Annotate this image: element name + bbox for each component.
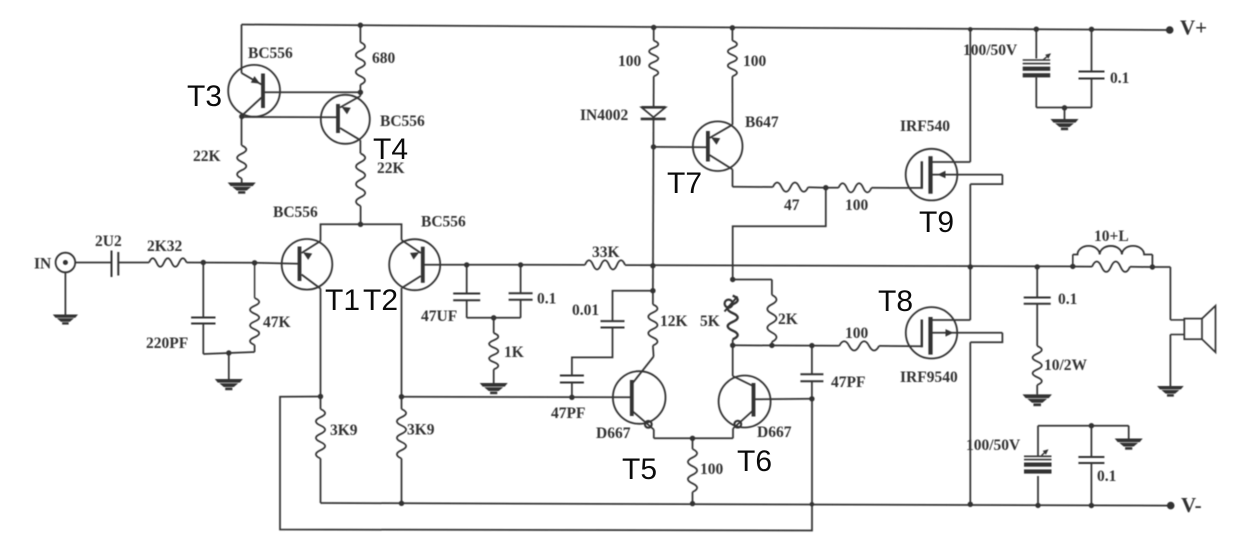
label BC556 T4 — [380, 113, 425, 130]
svg-text:22K: 22K — [193, 148, 221, 165]
wire 10/2W to ground — [1036, 385, 1038, 394]
capacitor 0.1 bottom right — [1078, 426, 1104, 506]
node 0.1 junction — [518, 262, 523, 267]
node 47PF right junction — [809, 343, 814, 348]
transistor T2 base bar — [421, 247, 425, 283]
node output junction — [968, 264, 973, 269]
transistor T4 collector — [340, 128, 360, 140]
wire diode to VAS node — [652, 119, 655, 291]
wire T7 base line — [654, 146, 708, 148]
resistor 12K — [648, 291, 657, 346]
resistor 100 T8 gate — [839, 341, 879, 350]
label T3 — [187, 80, 222, 113]
svg-text:0.1: 0.1 — [1097, 468, 1116, 485]
svg-text:0.1: 0.1 — [537, 291, 556, 308]
label T8 — [878, 285, 913, 318]
label IN — [34, 256, 51, 273]
resistor 1K — [489, 318, 498, 370]
transistor Q T2 BC556 circle — [389, 239, 440, 290]
transistor Q T8 IRF9540 circle — [906, 307, 957, 358]
transistor Q T6 D667 circle — [719, 376, 771, 428]
wire rail to elcap — [1035, 29, 1037, 58]
svg-text:0.01: 0.01 — [572, 302, 599, 319]
wire T2 collector down — [401, 288, 403, 409]
transistor T5 collector — [632, 357, 653, 384]
label B647 — [745, 114, 779, 131]
svg-text:100: 100 — [700, 461, 724, 478]
transistor T6 collector — [733, 376, 753, 386]
label 3K9 right — [407, 422, 435, 439]
label D667 T6 — [757, 424, 792, 441]
node 100L rail junction — [651, 25, 656, 30]
label 5K — [700, 313, 720, 330]
node T1 collector junction — [318, 394, 323, 399]
wire 680 to node — [359, 85, 361, 96]
resistor 22K right — [356, 153, 365, 206]
transistor T1 base bar — [298, 247, 302, 282]
speaker LS1 — [1170, 306, 1215, 353]
wire 2K to bias bottom — [771, 342, 773, 346]
svg-text:47: 47 — [784, 197, 800, 214]
node ground junction — [226, 350, 231, 355]
transistor T6 emitter — [733, 411, 753, 429]
wire rail to 100R — [731, 28, 733, 41]
transistor T3 emitter — [242, 73, 262, 85]
node 1K junction — [491, 315, 496, 320]
resistor 3K9 left — [316, 409, 325, 459]
svg-text:T5: T5 — [622, 453, 657, 486]
transistor Q T9 IRF540 circle — [906, 149, 958, 201]
svg-text:100: 100 — [618, 53, 642, 70]
node T8 V- junction — [968, 502, 973, 507]
svg-text:BC556: BC556 — [421, 214, 466, 231]
transistor Q T7 B647 circle — [693, 121, 743, 171]
label T9 — [919, 206, 954, 239]
svg-text:IRF9540: IRF9540 — [900, 369, 958, 386]
label BC556 T1 — [273, 204, 318, 221]
wire 100R to T7 emitter — [731, 76, 733, 124]
label T4 — [373, 133, 408, 166]
transistor Q T1 BC556 circle — [282, 239, 333, 290]
wire 5K to bias bottom — [732, 339, 734, 345]
wire feedback left — [280, 397, 812, 531]
svg-text:IN: IN — [34, 256, 51, 273]
resistor 22K left — [237, 145, 246, 178]
label 100 T8 gate — [845, 325, 869, 342]
wire psu gnd link bottom — [1038, 425, 1129, 427]
label V- — [1181, 493, 1202, 517]
label 0.01 — [572, 302, 599, 319]
transistor T1 collector — [302, 275, 321, 289]
resistor 33K — [585, 260, 625, 269]
wire node B to T1 base — [255, 263, 300, 264]
node 10+L left junction — [1070, 264, 1075, 269]
wire V- to elcap bottom — [1037, 476, 1039, 505]
svg-text:2K: 2K — [778, 311, 798, 328]
wire psu gnd stub bottom — [1128, 426, 1130, 439]
transistor T8 gate bar — [921, 320, 923, 348]
transistor T7 base bar — [706, 131, 710, 162]
resistor 47 — [773, 183, 808, 192]
svg-text:47UF: 47UF — [421, 308, 457, 325]
wire 47 to node — [808, 186, 826, 188]
label IRF540 — [900, 118, 950, 135]
label IN4002 — [580, 107, 628, 124]
resistor 2K32 — [149, 258, 187, 267]
node feedback V- crossing — [810, 502, 815, 507]
wire 3K9 right to V- — [401, 459, 403, 504]
transistor T6 base bar — [752, 383, 756, 417]
capacitor 47PF left — [560, 376, 584, 383]
label IRF9540 — [900, 369, 958, 386]
trimmer 5K — [725, 296, 738, 340]
label 100 right top — [743, 53, 767, 70]
transistor Q T3 BC556 circle — [228, 65, 280, 117]
label 22K right — [377, 160, 405, 177]
svg-text:2K32: 2K32 — [147, 238, 183, 255]
transistor T8 drain lead — [931, 319, 971, 321]
svg-text:T1: T1 — [325, 284, 360, 317]
wire 3K9 left to V- — [320, 459, 322, 504]
wire T6 collector up — [732, 345, 734, 376]
node 47UF junction — [464, 262, 469, 267]
label 47UF — [421, 308, 457, 325]
wire T8 drain to output — [969, 267, 971, 320]
svg-text:BC556: BC556 — [248, 45, 293, 62]
resistor 47K — [250, 263, 259, 352]
svg-text:47K: 47K — [263, 314, 291, 331]
node 680 top junction — [358, 23, 363, 28]
capacitor 0.01 — [601, 321, 625, 327]
transistor Q T4 BC556 circle — [321, 95, 370, 144]
resistor 2K — [767, 295, 776, 342]
wire T4 collector to 22K — [359, 140, 361, 153]
wire tail split — [321, 224, 402, 241]
capacitor 100/50V bottom — [1024, 449, 1052, 473]
ground 1K — [480, 383, 508, 394]
label 33K — [592, 244, 620, 261]
ground zobel — [1023, 394, 1052, 406]
svg-text:100/50V: 100/50V — [966, 437, 1021, 454]
label 100/50V top — [963, 42, 1018, 59]
connector J1 input — [56, 253, 76, 273]
node 100E V- junction — [690, 501, 695, 506]
wire speaker to ground — [1169, 335, 1171, 387]
label 0.1 top right — [1110, 70, 1129, 87]
wire ground stub — [228, 353, 230, 379]
node A junction 220PF — [201, 260, 206, 265]
wire T9 source to output — [969, 184, 971, 267]
svg-text:IN4002: IN4002 — [580, 107, 628, 124]
transistor T4 emitter — [340, 96, 360, 114]
resistor 10/2W — [1033, 346, 1042, 385]
resistor 680 — [356, 42, 365, 84]
wire cap link — [467, 317, 521, 319]
wire T9 drain to rail — [969, 29, 971, 162]
node 3K9 V- junction — [399, 501, 404, 506]
transistor T5 base bar — [630, 380, 634, 416]
label 47K — [263, 314, 291, 331]
wire 22K to tail node — [360, 206, 362, 224]
svg-text:47PF: 47PF — [551, 405, 585, 422]
svg-text:10+L: 10+L — [1094, 228, 1129, 245]
node 0.1 bottom junction — [1089, 503, 1094, 508]
node T9 rail junction — [968, 27, 973, 32]
label 10+L — [1094, 228, 1129, 245]
node T4 emitter junction — [358, 90, 363, 95]
label BC556 T3 — [248, 45, 293, 62]
wire rail to 100L — [653, 28, 655, 41]
label 100 T9 gate — [845, 197, 869, 214]
label 2K — [778, 311, 798, 328]
wire T5 base line — [402, 396, 632, 399]
capacitor 0.1 top right — [1079, 29, 1105, 107]
wire 1K to ground — [493, 369, 495, 383]
node 100R rail junction — [730, 25, 735, 30]
wire T7 collector down — [732, 169, 734, 186]
node 100E junction — [690, 436, 695, 441]
transistor T1 emitter — [302, 241, 321, 260]
transistor T8 source lead — [931, 329, 1003, 337]
wire 100E to V- — [692, 492, 694, 504]
wire 12K to T5 collector — [652, 346, 655, 357]
svg-text:T8: T8 — [878, 285, 913, 318]
wire 0.01 to 47PF — [572, 328, 613, 376]
transistor T9 source lead — [931, 171, 1003, 179]
wire emitter link — [654, 437, 733, 439]
label 3K9 left — [330, 422, 358, 439]
label D667 T5 — [596, 425, 631, 442]
node B junction 47K — [252, 260, 257, 265]
wire T4 base line — [242, 116, 339, 118]
node zobel junction — [1035, 264, 1040, 269]
label 0.1 bottom right — [1097, 468, 1116, 485]
wire T3 base line — [263, 91, 360, 93]
svg-text:47PF: 47PF — [831, 374, 865, 391]
svg-text:100: 100 — [845, 197, 869, 214]
svg-text:IRF540: IRF540 — [900, 118, 950, 135]
ground psu bottom — [1115, 439, 1143, 450]
wire 33K to output node — [625, 265, 1073, 266]
label 10/2W — [1044, 357, 1088, 374]
capacitor 0.1 lead — [509, 265, 533, 318]
label 1K — [504, 344, 524, 361]
wire psu gnd stub top — [1064, 108, 1066, 119]
svg-text:100: 100 — [845, 325, 869, 342]
svg-text:V-: V- — [1181, 493, 1202, 517]
label 22K left — [193, 148, 221, 165]
svg-text:2U2: 2U2 — [95, 233, 122, 250]
wire T6 base line — [754, 398, 812, 401]
node psu link junction bottom — [1089, 423, 1094, 428]
wire T8 source to V- — [969, 342, 971, 504]
transistor T7 collector — [710, 155, 733, 169]
wire T7 collector to 47 — [733, 186, 773, 188]
svg-text:T2: T2 — [363, 284, 398, 317]
label T1 — [325, 284, 360, 317]
label 680 — [372, 50, 396, 67]
label T5 — [622, 453, 657, 486]
svg-text:T6: T6 — [737, 445, 772, 478]
capacitor 2U2 — [112, 251, 119, 278]
wire V+ to 680 — [359, 25, 361, 42]
wire 100L to diode — [653, 76, 655, 106]
svg-text:10/2W: 10/2W — [1044, 357, 1088, 374]
capacitor 0.1 zobel — [1024, 267, 1051, 346]
node elcap bottom junction — [1035, 503, 1040, 508]
capacitor 220PF — [191, 318, 215, 324]
label 2K32 — [147, 238, 183, 255]
label 0.1 mid — [537, 291, 556, 308]
label BC556 T2 — [421, 214, 466, 231]
wire T3 collector to 22K — [241, 116, 243, 145]
node elcap top junction — [1034, 27, 1039, 32]
transistor T3 base bar — [261, 74, 265, 109]
node 0.1 top junction — [1089, 27, 1094, 32]
svg-text:BC556: BC556 — [273, 204, 318, 221]
diode D1 IN4002 — [641, 107, 666, 119]
transistor Q T5 D667 circle — [613, 371, 666, 424]
capacitor 47UF — [453, 265, 480, 318]
svg-text:3K9: 3K9 — [330, 422, 358, 439]
svg-text:T7: T7 — [667, 167, 702, 200]
label 220PF — [146, 335, 188, 352]
svg-text:220PF: 220PF — [146, 335, 188, 352]
wire T7 bias detour — [733, 188, 826, 280]
node 5K bottom junction — [730, 343, 735, 348]
svg-text:B647: B647 — [745, 114, 779, 131]
svg-text:680: 680 — [372, 50, 396, 67]
label 100 emitter — [700, 461, 724, 478]
wire C1 to R1 — [118, 262, 149, 264]
ground 22K — [228, 183, 256, 194]
capacitor 47PF right — [800, 346, 823, 399]
wire 100 to T9 gate — [872, 187, 922, 189]
wire elcap to gnd link — [1035, 77, 1037, 107]
node T6 base junction — [809, 396, 814, 401]
ground speaker — [1157, 386, 1184, 397]
label V+ — [1180, 16, 1207, 40]
wire node to 100g9 — [826, 187, 839, 189]
wire T6 emitter stub — [732, 429, 734, 439]
resistor 100 right top — [728, 41, 737, 77]
svg-text:100: 100 — [743, 53, 767, 70]
label 2U2 — [95, 233, 122, 250]
node V+ terminal — [1166, 26, 1174, 34]
wire T9 source detour — [970, 175, 1002, 185]
svg-text:100/50V: 100/50V — [963, 42, 1018, 59]
label 100 left top — [618, 53, 642, 70]
node psu gnd junction top — [1062, 105, 1067, 110]
label 0.1 zobel — [1058, 291, 1077, 308]
node T3 collector junction — [239, 114, 244, 119]
wire node A to 220PF — [202, 263, 204, 318]
svg-text:D667: D667 — [596, 425, 631, 442]
transistor T9 gate bar — [921, 161, 923, 189]
node VAS junction — [650, 263, 655, 268]
wire V+ to T3 emitter — [241, 25, 243, 74]
resistor 10+L resistor — [1073, 262, 1153, 272]
transistor T4 base bar — [336, 104, 340, 133]
label T6 — [737, 445, 772, 478]
wire V- rail — [321, 503, 1171, 506]
label 47 — [784, 197, 800, 214]
svg-text:3K9: 3K9 — [407, 422, 435, 439]
wire bias top link — [733, 280, 772, 295]
svg-text:12K: 12K — [660, 313, 688, 330]
wire T5 emitter stub — [653, 430, 655, 439]
svg-text:0.1: 0.1 — [1110, 70, 1129, 87]
wire 220PF to ground link — [203, 324, 254, 355]
wire input ground stub — [64, 272, 66, 314]
resistor 100 emitter — [688, 438, 697, 492]
svg-text:BC556: BC556 — [380, 113, 425, 130]
transistor T7 emitter — [710, 125, 733, 145]
wire T2 base to 33K — [423, 264, 585, 266]
resistor 100 T9 gate — [839, 183, 872, 192]
svg-text:0.1: 0.1 — [1058, 291, 1077, 308]
label T2 — [363, 284, 398, 317]
resistor 3K9 right — [397, 409, 406, 459]
wire 47PF to T5 base — [571, 383, 573, 398]
label T7 — [667, 167, 702, 200]
wire 12K node to 0.01 — [613, 291, 653, 321]
svg-text:5K: 5K — [700, 313, 720, 330]
transistor T3 collector — [242, 98, 262, 117]
wire 100 to T8 gate — [879, 345, 922, 347]
label 100/50V bottom — [966, 437, 1021, 454]
wire psu gnd link top — [1036, 107, 1091, 109]
wire 22K to ground — [241, 179, 243, 183]
ground input — [53, 315, 78, 325]
label 47PF left — [551, 405, 585, 422]
node 2K bottom junction — [769, 343, 774, 348]
transistor T2 collector — [402, 276, 421, 288]
node T7 base junction — [651, 144, 656, 149]
wire T1 collector down — [320, 289, 322, 409]
wire output to speaker — [1152, 267, 1170, 320]
transistor T9 channel bar — [928, 156, 932, 194]
transistor T9 drain lead — [931, 161, 971, 163]
node tail junction — [358, 222, 363, 227]
transistor T5 emitter — [632, 411, 654, 430]
wire bias bottom line — [733, 344, 840, 347]
svg-text:1K: 1K — [504, 344, 524, 361]
wire R1 to node A — [187, 262, 255, 264]
ground input filter — [215, 379, 243, 390]
node T5 base junction — [569, 395, 574, 400]
node V- terminal — [1167, 502, 1175, 510]
transistor T2 emitter — [402, 240, 421, 260]
resistor 100 left top — [649, 41, 658, 77]
ground psu top — [1051, 119, 1079, 130]
node 47-100 junction — [823, 185, 828, 190]
svg-text:33K: 33K — [592, 244, 620, 261]
wire input to C1 — [75, 262, 110, 264]
svg-text:T4: T4 — [373, 133, 408, 166]
svg-text:D667: D667 — [757, 424, 792, 441]
label 12K — [660, 313, 688, 330]
node T2 collector junction — [399, 394, 404, 399]
svg-text:T9: T9 — [919, 206, 954, 239]
inductor 10+L coil — [1073, 246, 1153, 267]
wire V+ rail — [242, 25, 1170, 31]
svg-text:V+: V+ — [1180, 16, 1207, 40]
svg-text:T3: T3 — [187, 80, 222, 113]
node 10+L right junction — [1150, 264, 1155, 269]
label 47PF right — [831, 374, 865, 391]
transistor T8 channel bar — [928, 317, 932, 355]
